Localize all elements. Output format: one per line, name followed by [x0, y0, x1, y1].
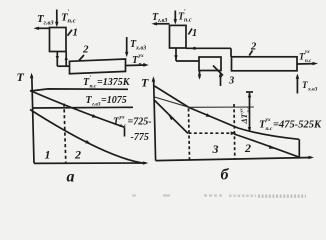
svg-text:п.с: п.с	[246, 107, 251, 113]
svg-text:п.с: п.с	[266, 126, 273, 132]
svg-text:′: ′	[68, 9, 70, 16]
svg-text:′: ′	[90, 76, 92, 82]
svg-text:1: 1	[73, 27, 79, 39]
svg-text:=1375К: =1375К	[97, 77, 131, 88]
svg-text:г.в3: г.в3	[158, 18, 167, 24]
svg-text:′: ′	[184, 9, 186, 15]
svg-text:Т: Т	[17, 70, 25, 84]
svg-text:ух: ух	[119, 115, 125, 121]
svg-text:2: 2	[82, 44, 89, 56]
svg-text:п.с: п.с	[305, 59, 312, 64]
svg-text:п.с: п.с	[139, 62, 146, 68]
svg-text:3: 3	[228, 76, 234, 87]
svg-text:х.в3: х.в3	[307, 87, 318, 93]
svg-text:=725-: =725-	[128, 117, 152, 128]
svg-text:2: 2	[244, 141, 251, 155]
svg-text:б: б	[221, 167, 230, 184]
svg-text:1: 1	[45, 148, 51, 162]
svg-text:г.в3: г.в3	[44, 20, 55, 27]
svg-text:ух: ух	[304, 50, 310, 55]
svg-text:Т: Т	[141, 76, 149, 90]
svg-text:2: 2	[250, 42, 257, 53]
svg-text:2: 2	[74, 148, 81, 162]
svg-text:=475-525К: =475-525К	[273, 120, 322, 131]
svg-text:а: а	[67, 169, 75, 186]
svg-text:ух: ух	[265, 117, 271, 123]
svg-text:-775: -775	[131, 132, 149, 143]
svg-text:ух: ух	[239, 108, 244, 114]
svg-text:п.с: п.с	[68, 18, 76, 25]
svg-text:х.в3: х.в3	[135, 46, 146, 52]
svg-text:г.в3: г.в3	[92, 102, 101, 108]
svg-text:п.с: п.с	[90, 84, 97, 90]
svg-text:ух: ух	[138, 53, 144, 59]
svg-text:ΔТ: ΔТ	[240, 112, 249, 124]
svg-text:=1075: =1075	[101, 95, 127, 106]
svg-text:п.с: п.с	[120, 123, 127, 129]
svg-text:п.с: п.с	[184, 18, 192, 24]
svg-text:3: 3	[212, 142, 219, 156]
svg-text:1: 1	[192, 28, 197, 39]
